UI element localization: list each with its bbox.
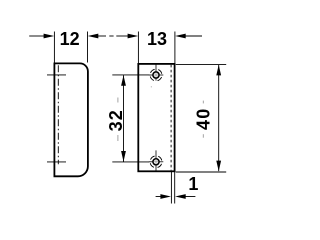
- hole bottom vertical centerline: [155, 150, 157, 159]
- svg-text:12: 12: [60, 29, 80, 49]
- dimension 1 left arrow: [160, 194, 171, 199]
- label 32 centerline dash above: [117, 98, 119, 103]
- dimension 13 extension line left: [137, 32, 139, 64]
- dimension 32 top arrow: [121, 75, 126, 86]
- side view hole tick top: [47, 74, 66, 76]
- dimension 40 bottom arrow: [216, 161, 221, 172]
- dimension 40 top arrow: [216, 65, 221, 76]
- dimension 32 bottom arrow: [121, 151, 126, 162]
- dimension 12 left leader: [29, 35, 44, 37]
- side view centerline: [57, 65, 59, 164]
- svg-text:32: 32: [106, 109, 126, 131]
- svg-text:1: 1: [188, 174, 198, 194]
- dimension 1 extension line right: [174, 172, 176, 204]
- hole top vertical centerline: [155, 64, 157, 72]
- dimension 1 right arrow: [175, 194, 186, 199]
- hole top horizontal centerline: [149, 74, 154, 76]
- hole top countersink dashed circle: [148, 67, 163, 82]
- side view hole tick bottom: [47, 161, 66, 163]
- dash between dims: [109, 35, 113, 37]
- dimension 13 right leader: [185, 35, 202, 37]
- svg-text:13: 13: [147, 29, 167, 49]
- label 40 centerline dash above: [202, 101, 204, 104]
- dimension 13 left leader: [116, 35, 129, 37]
- dimension 32 extension line bottom: [112, 161, 149, 163]
- dimension 12 right arrow: [88, 34, 99, 39]
- hole top circle: [153, 72, 159, 78]
- dimension 40 extension line top: [176, 64, 226, 66]
- dimension 12 extension line left: [53, 32, 55, 63]
- dimension 1 left leader: [156, 196, 163, 198]
- dimension 12 right leader: [98, 35, 106, 37]
- front view hidden edge line: [170, 65, 172, 171]
- dimension 32 line: [123, 75, 125, 161]
- dimension 13 left arrow: [128, 34, 139, 39]
- dimension 12 extension line right: [87, 32, 89, 63]
- hole bottom horizontal centerline: [149, 161, 154, 163]
- hole bottom countersink dashed circle: [148, 154, 163, 169]
- front view plate: [138, 64, 174, 171]
- label 40 centerline dash below: [202, 134, 204, 138]
- svg-text:40: 40: [193, 108, 213, 130]
- hole bottom circle: [153, 159, 159, 165]
- dimension 1 right leader: [185, 196, 195, 198]
- label 32 centerline dash below: [117, 135, 119, 141]
- dimension 12 left arrow: [44, 34, 55, 39]
- hole top stray mark: [150, 86, 152, 88]
- dimension 13 extension line right: [174, 32, 176, 64]
- dimension 1 extension line left: [170, 172, 172, 204]
- dimension 40 line: [218, 65, 220, 171]
- dimension 13 right arrow: [175, 34, 186, 39]
- dimension 32 extension line top: [112, 74, 149, 76]
- dimension 40 extension line bottom: [176, 171, 226, 173]
- side view outline: [54, 63, 88, 176]
